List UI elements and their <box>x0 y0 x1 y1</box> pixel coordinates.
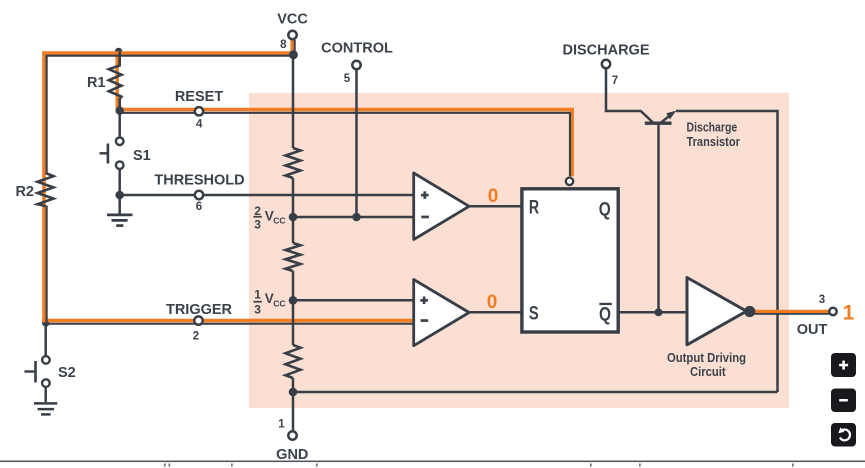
value label 0 at comparator U2 output <box>487 292 498 313</box>
svg-text:Transistor: Transistor <box>687 134 740 149</box>
net OUT orange <box>750 312 830 314</box>
label S1 <box>133 148 151 164</box>
junction dot 2/3 Vcc node <box>289 213 298 222</box>
svg-text:1: 1 <box>843 302 855 325</box>
svg-text:S1: S1 <box>133 148 151 164</box>
junction dot buffer output <box>744 306 755 317</box>
switch S1 pushbutton actuator <box>100 144 108 164</box>
pin 8 VCC terminal <box>288 31 296 39</box>
svg-text:8: 8 <box>280 39 287 51</box>
svg-text:OUT: OUT <box>797 322 828 338</box>
wire 2/3 Vcc to comparator minus <box>293 216 414 219</box>
buffer U4 output driving circuit <box>687 278 747 345</box>
svg-text:1: 1 <box>254 287 261 301</box>
SR latch U3 body <box>522 189 618 332</box>
junction dot R1 bottom / RESET <box>116 107 124 115</box>
pin number 2 <box>193 331 199 343</box>
label Q output <box>599 198 611 220</box>
wire TRIGGER corner to S2 <box>44 322 47 402</box>
pin number 6 <box>196 201 202 213</box>
pin number 3 <box>819 294 825 306</box>
junction dot THRESHOLD / S1 / ground <box>115 191 124 200</box>
pin number 1 <box>278 419 285 431</box>
junction dot divider bottom / GND <box>289 388 298 397</box>
svg-text:1: 1 <box>278 419 285 431</box>
voltage divider chain: wire + resistors <box>286 55 301 431</box>
junction dot 1/3 Vcc node <box>289 296 298 305</box>
wire comparator1 output to R <box>469 205 522 208</box>
wire GND bottom rail <box>293 391 778 394</box>
svg-text:2: 2 <box>254 204 261 218</box>
svg-text:DISCHARGE: DISCHARGE <box>562 43 649 59</box>
reset inverting bubble on latch <box>566 178 573 185</box>
svg-text:3: 3 <box>819 294 825 306</box>
svg-text:0: 0 <box>487 292 498 313</box>
UI button zoom out <box>831 389 856 413</box>
net VCC orange rail <box>42 38 294 322</box>
wire emitter to right side down to GND rail <box>676 111 778 392</box>
wire DISCHARGE stub to collector <box>606 68 653 122</box>
junction dot Qbar / base <box>655 308 663 316</box>
pin number 7 <box>612 75 618 87</box>
junction dot R1 top <box>115 48 123 56</box>
svg-text:Output Driving: Output Driving <box>667 350 746 365</box>
wire S1 to RESET and threshold junction <box>118 111 121 197</box>
IC body shaded region <box>249 93 789 408</box>
label Discharge Transistor <box>687 119 740 149</box>
junction dot TRIGGER corner / S2 <box>42 319 50 327</box>
transistor Q1 base bar <box>645 121 672 124</box>
switch S2 contact circles <box>42 356 50 387</box>
svg-text:RESET: RESET <box>175 89 223 105</box>
wire THRESHOLD line <box>120 194 414 197</box>
pin 4 RESET terminal <box>195 107 203 115</box>
svg-text:S: S <box>529 303 539 325</box>
svg-text:GND: GND <box>276 447 308 463</box>
label R1 <box>87 75 106 91</box>
resistor R2 <box>38 173 54 206</box>
svg-text:2: 2 <box>193 331 199 343</box>
pin 7 DISCHARGE terminal <box>602 60 610 68</box>
svg-text:R2: R2 <box>15 184 34 200</box>
wire Qbar junction to transistor base <box>657 124 660 312</box>
svg-text:0: 0 <box>488 186 499 207</box>
pin 2 TRIGGER terminal <box>194 316 202 324</box>
label TRIGGER <box>166 302 233 318</box>
label OUT <box>797 322 828 338</box>
svg-text:Q: Q <box>599 198 611 220</box>
node label 2/3 Vcc <box>253 204 285 232</box>
svg-text:3: 3 <box>254 218 261 232</box>
label Qbar output <box>599 303 612 326</box>
svg-text:R1: R1 <box>87 75 106 91</box>
svg-text:6: 6 <box>196 201 202 213</box>
junction dot VCC rail / stub <box>289 50 298 59</box>
svg-text:3: 3 <box>254 302 261 316</box>
svg-text:CC: CC <box>273 216 285 226</box>
pin number 5 <box>344 73 351 85</box>
pin number 4 <box>196 119 203 131</box>
pin 6 THRESHOLD terminal <box>195 191 203 199</box>
label R2 <box>15 184 34 200</box>
svg-text:5: 5 <box>344 73 351 85</box>
svg-text:R: R <box>529 197 539 219</box>
bottom panel divider line <box>0 461 865 467</box>
wire 1/3 Vcc to comparator plus <box>293 299 414 302</box>
value label 0 at comparator U1 output <box>488 186 499 207</box>
ground at S1 <box>107 195 133 226</box>
wire CONTROL stub <box>355 69 358 217</box>
wire Qbar to buffer <box>618 311 688 314</box>
pin 1 GND terminal <box>288 431 296 439</box>
svg-text:Circuit: Circuit <box>690 364 726 379</box>
label S2 <box>58 365 76 381</box>
wire comparator2 output to S <box>469 311 522 314</box>
resistor R1 <box>109 52 122 114</box>
label R input <box>529 197 539 219</box>
label THRESHOLD <box>154 173 244 189</box>
node label 1/3 Vcc <box>253 287 285 316</box>
svg-text:TRIGGER: TRIGGER <box>166 302 233 318</box>
label CONTROL <box>321 41 393 57</box>
net TRIGGER orange <box>42 319 414 323</box>
svg-text:4: 4 <box>196 119 203 131</box>
label S input <box>529 303 539 325</box>
svg-text:VCC: VCC <box>277 11 308 27</box>
pin number 8 <box>280 39 287 51</box>
junction dot CONTROL tap <box>352 213 361 222</box>
svg-text:S2: S2 <box>58 365 76 381</box>
pin 3 OUT terminal <box>829 308 836 315</box>
transistor Q1 emitter with arrow <box>661 111 677 123</box>
wire dark shadow of TRIGGER line <box>46 323 414 325</box>
svg-text:Discharge: Discharge <box>687 119 738 134</box>
svg-text:CC: CC <box>273 298 285 308</box>
ground at S2 <box>34 403 57 414</box>
net RESET orange (through R1) <box>116 52 574 177</box>
svg-text:THRESHOLD: THRESHOLD <box>154 173 244 189</box>
pin 5 CONTROL terminal <box>352 61 360 69</box>
op-amp comparator U1 (threshold) <box>414 173 469 240</box>
svg-text:CONTROL: CONTROL <box>321 41 393 57</box>
value label 1 at OUT <box>843 302 855 325</box>
label VCC <box>277 11 308 27</box>
switch S1 contact circles <box>116 137 124 169</box>
label Output Driving Circuit <box>667 350 746 379</box>
svg-text:Q: Q <box>599 303 611 325</box>
UI button zoom in <box>831 353 856 377</box>
label GND <box>276 447 308 463</box>
op-amp comparator U2 (trigger) <box>414 280 469 346</box>
switch S2 pushbutton actuator <box>25 361 36 383</box>
svg-text:7: 7 <box>612 75 618 87</box>
wire dark shadow of VCC rail <box>46 40 295 323</box>
UI button reset view <box>831 423 856 447</box>
label RESET <box>175 89 223 105</box>
wire dark shadow of RESET line <box>120 112 571 176</box>
label DISCHARGE <box>562 43 649 59</box>
